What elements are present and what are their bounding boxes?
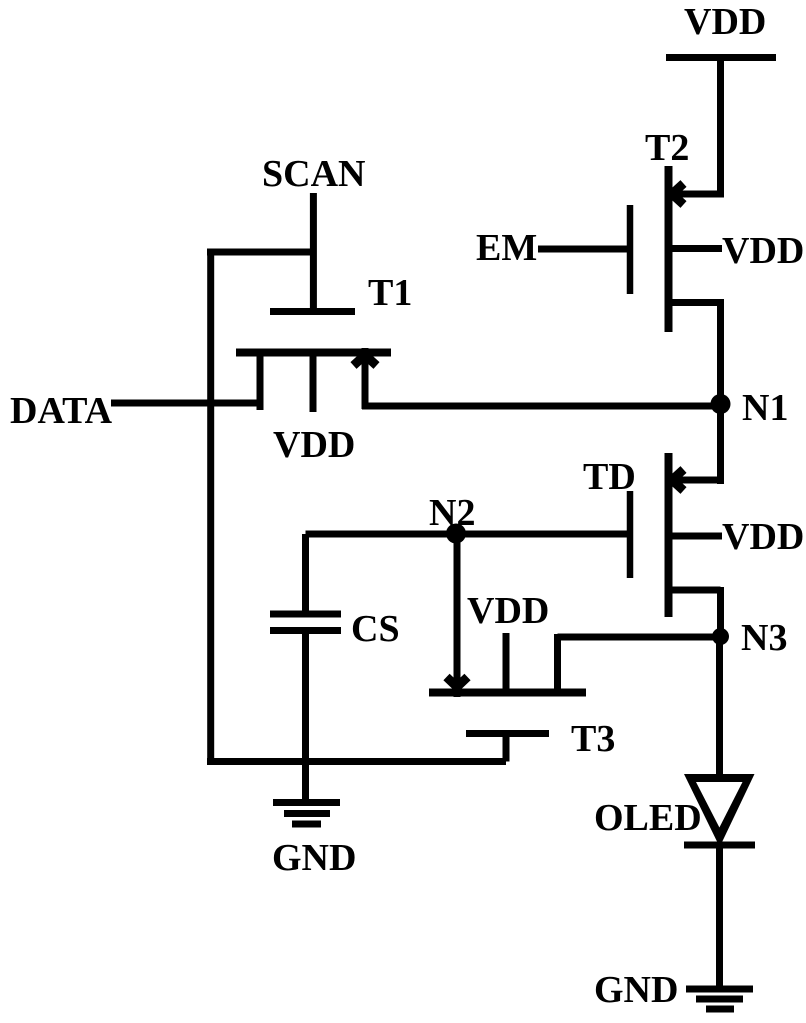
svg-text:SCAN: SCAN	[262, 153, 365, 195]
svg-text:T1: T1	[368, 272, 412, 314]
svg-text:VDD: VDD	[273, 424, 355, 466]
svg-text:TD: TD	[583, 456, 636, 498]
svg-text:VDD: VDD	[684, 1, 766, 43]
svg-text:OLED: OLED	[594, 797, 702, 839]
svg-text:VDD: VDD	[722, 230, 804, 272]
svg-text:N1: N1	[742, 387, 788, 429]
svg-text:EM: EM	[476, 227, 537, 269]
svg-text:CS: CS	[351, 608, 400, 650]
svg-text:T3: T3	[571, 718, 615, 760]
svg-text:GND: GND	[272, 837, 356, 879]
svg-text:T2: T2	[645, 127, 689, 169]
svg-text:GND: GND	[594, 969, 678, 1011]
svg-text:VDD: VDD	[467, 590, 549, 632]
svg-text:VDD: VDD	[722, 516, 804, 558]
svg-text:N2: N2	[429, 492, 475, 534]
svg-text:N3: N3	[741, 617, 787, 659]
svg-text:DATA: DATA	[10, 390, 113, 432]
